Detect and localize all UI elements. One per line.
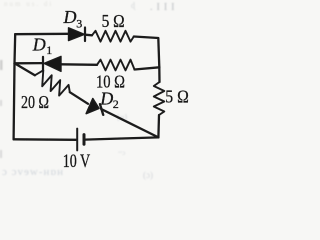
- svg-text:D: D: [99, 88, 113, 108]
- diode D3: [69, 28, 86, 42]
- value label 5 ohm (right): [165, 86, 189, 106]
- wire: middle row, D1 to R-mid: [61, 63, 97, 66]
- svg-text:1: 1: [46, 43, 52, 57]
- svg-text:5 Ω: 5 Ω: [102, 11, 125, 31]
- label D1: [32, 35, 52, 58]
- svg-text:ɔ ɔvɘw-ʜɒʜ: ɔ ɔvɘw-ʜɒʜ: [2, 166, 64, 178]
- node A: left junction (D1 row, diagonal, left wire): [14, 62, 16, 64]
- battery V1 10V (cell symbol): [77, 129, 84, 151]
- svg-text:5 Ω: 5 Ω: [165, 86, 189, 106]
- wire: diagonal, D2 to bottom-right corner: [101, 109, 158, 137]
- svg-text:20 Ω: 20 Ω: [21, 92, 49, 112]
- value label 5 ohm (top): [102, 11, 125, 31]
- resistor R-right 5 ohm (vertical zigzag): [154, 82, 165, 115]
- svg-text:3: 3: [76, 17, 82, 31]
- value label 20 ohm: [21, 92, 49, 112]
- svg-text:2: 2: [113, 97, 119, 111]
- wire: diagonal, R-diag to D2: [70, 92, 88, 104]
- value label 10 ohm: [96, 72, 125, 92]
- wire: top side right segment + top-right corner down to middle-row junction: [134, 37, 160, 68]
- wire: right branch bottom segment to bottom-right corner: [157, 115, 160, 137]
- wire: middle row, node A to D1 cathode: [15, 62, 44, 65]
- faint bleed-through artifacts (page scan): [0, 0, 179, 180]
- wire: bottom side, left segment to battery: [14, 138, 76, 141]
- wire: bottom side, battery to bottom-right corner: [85, 137, 158, 139]
- svg-text:.III: .III: [150, 2, 179, 13]
- wire: top side, left segment to D3 anode: [15, 33, 68, 36]
- label D2: [99, 88, 119, 111]
- diode D1 (pointing left): [43, 56, 61, 71]
- wire: diagonal, node A to R-diag: [15, 63, 35, 75]
- svg-text:num us. di: num us. di: [4, 0, 53, 8]
- wire: left vertical (top-left corner to bottom-left corner): [14, 34, 16, 139]
- wire: top side, D3 cathode to R-top: [85, 34, 92, 37]
- value label 10 V: [63, 151, 91, 172]
- wire: middle row, R-mid to right-branch junction: [135, 67, 160, 69]
- label D3: [63, 7, 83, 31]
- resistor R-top 5 ohm (zigzag): [92, 31, 134, 42]
- svg-text:ᶺᶺɔ: ᶺᶺɔ: [117, 149, 125, 157]
- svg-text:(ɔ): (ɔ): [143, 170, 153, 180]
- resistor R-diag 20 ohm (diagonal zigzag): [35, 70, 70, 95]
- node: junction of middle row with right branch: [158, 67, 160, 82]
- resistor R-mid 10 ohm (zigzag): [97, 60, 135, 71]
- diode D2 (pointing down-right): [86, 99, 103, 115]
- svg-text:D: D: [63, 7, 77, 27]
- svg-text:D: D: [32, 35, 46, 55]
- svg-text:10 V: 10 V: [63, 151, 91, 172]
